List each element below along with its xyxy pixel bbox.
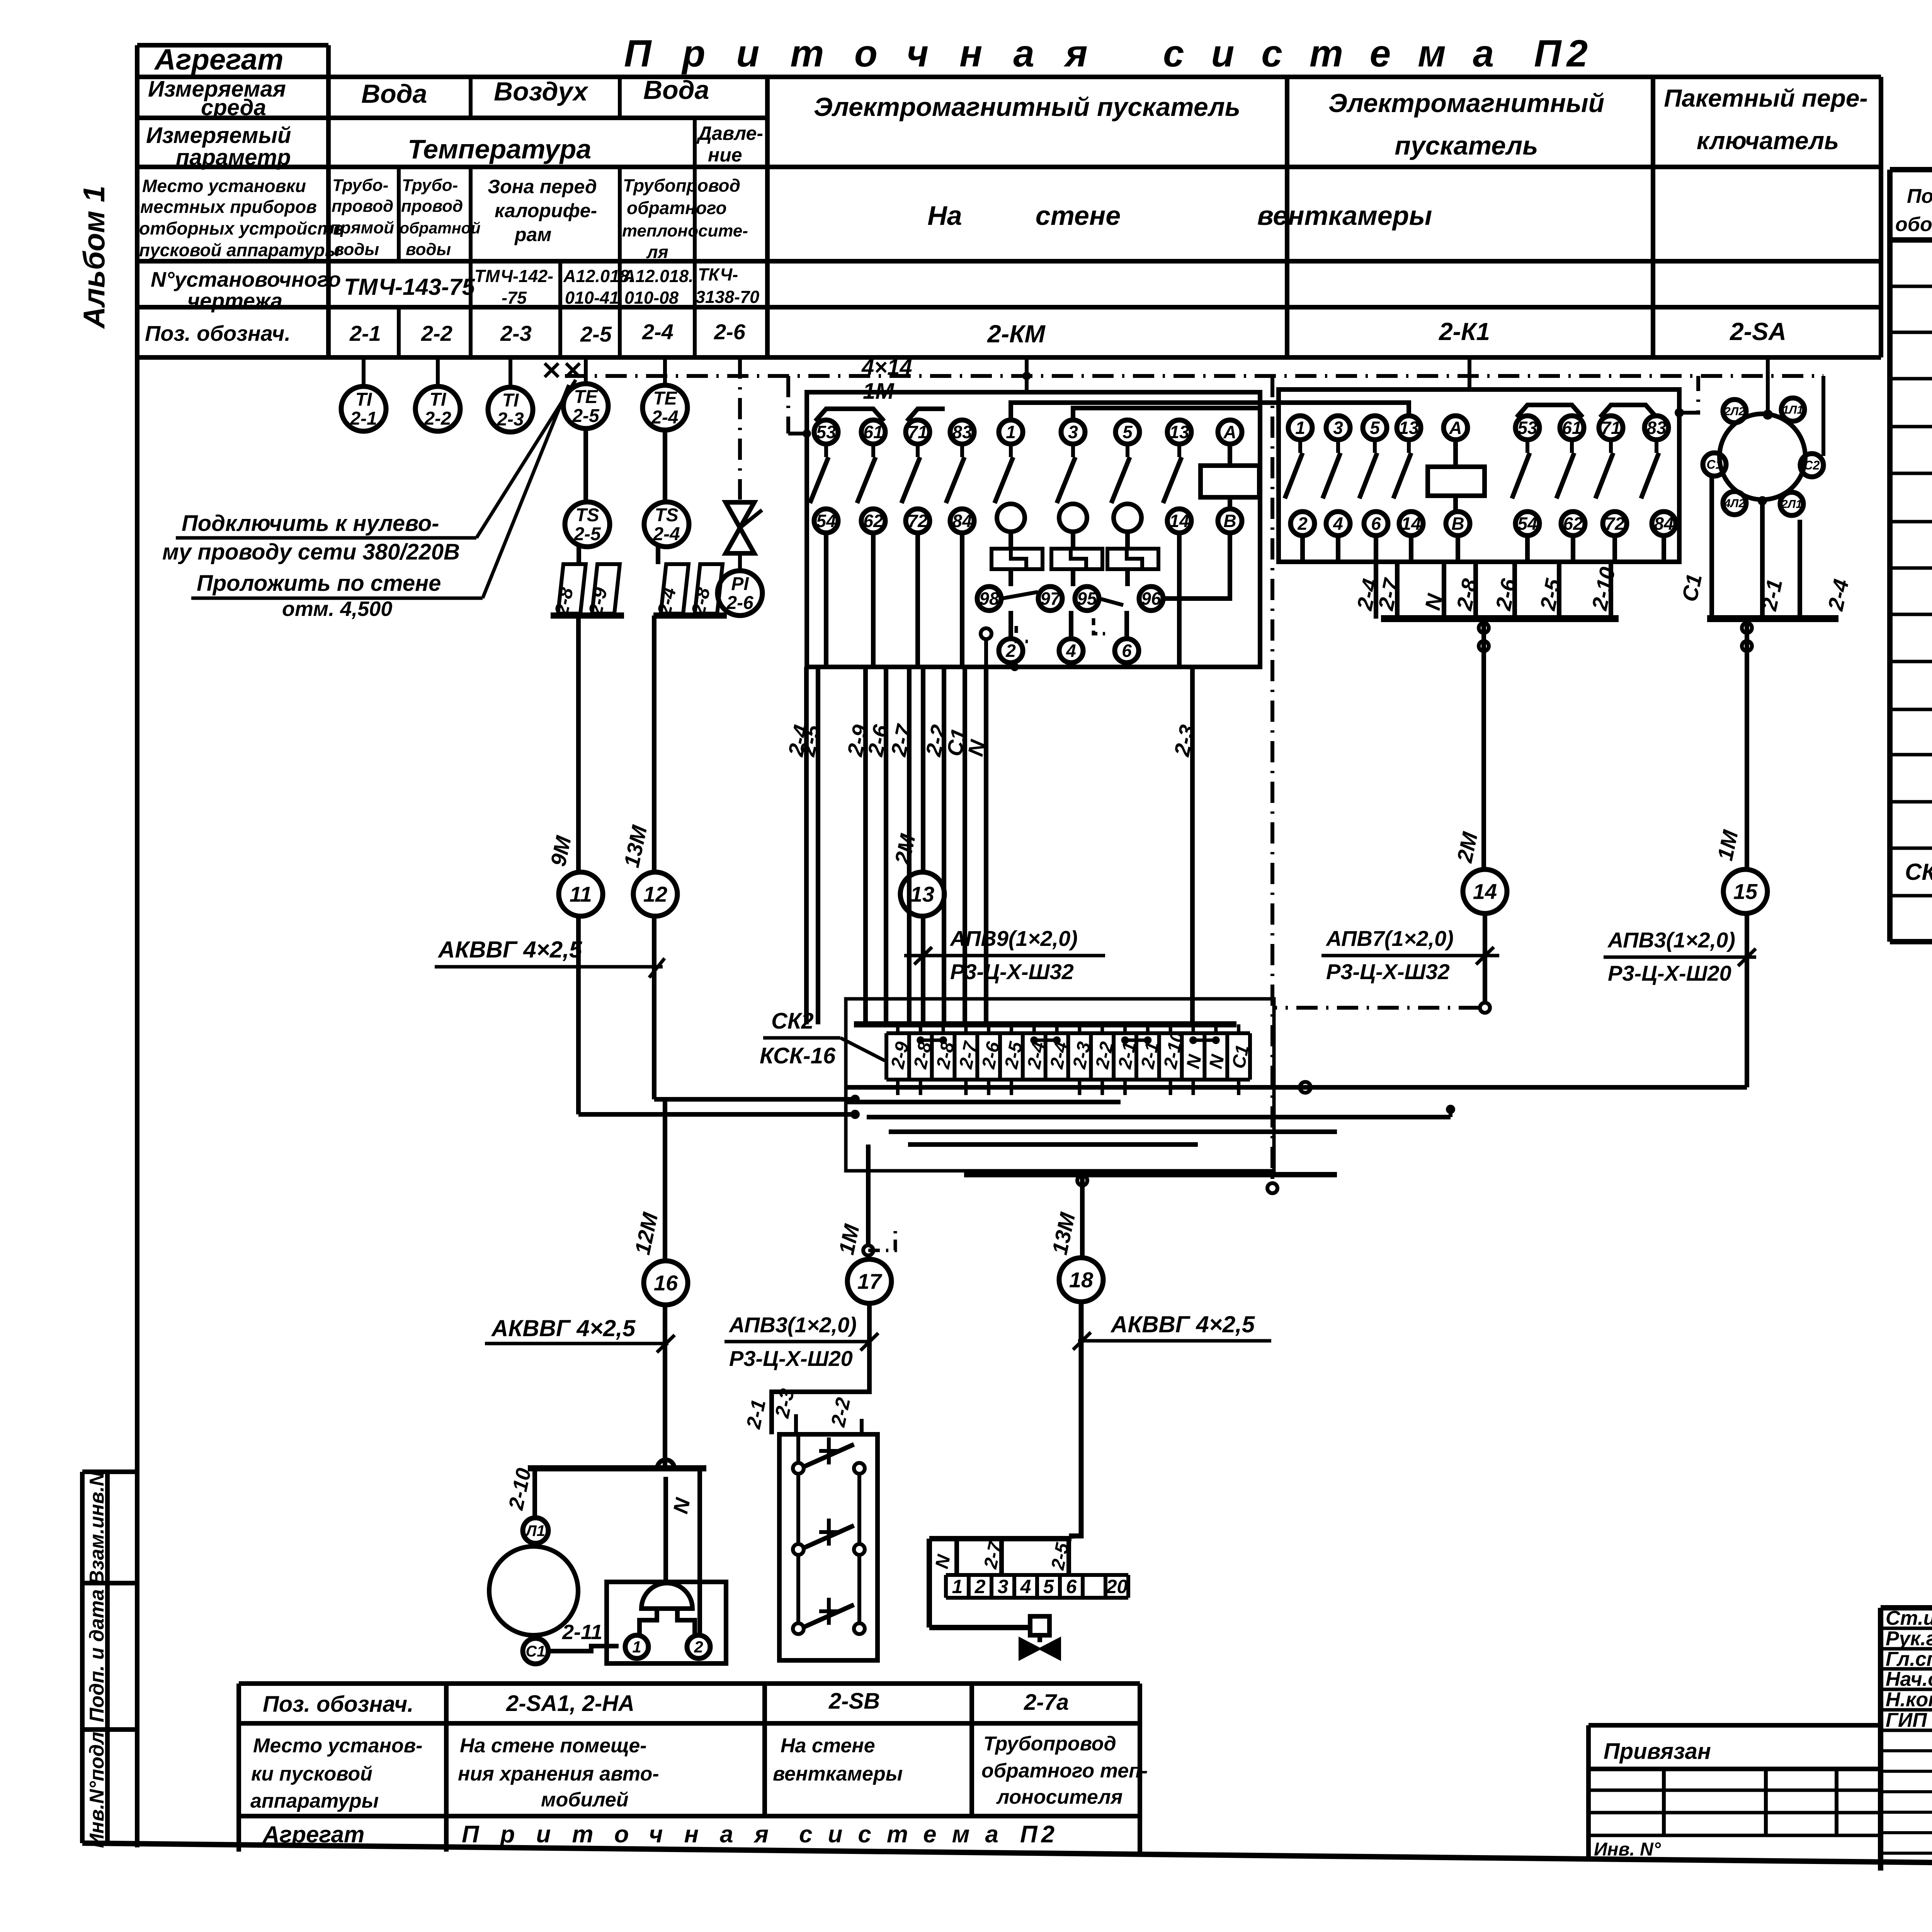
block1 terminal 72 bottom bbox=[906, 509, 930, 533]
package switch body bbox=[1719, 414, 1805, 500]
svg-text:АКВВГ 4×2,5: АКВВГ 4×2,5 bbox=[491, 1315, 636, 1341]
svg-text:венткамеры: венткамеры bbox=[1257, 201, 1432, 231]
svg-text:Поз. обознач.: Поз. обознач. bbox=[145, 321, 291, 345]
switch terminal 4Л2 bbox=[1723, 492, 1746, 515]
svg-text:Место установки: Место установки bbox=[142, 176, 306, 196]
wire 15 to junction box bbox=[1274, 1085, 1747, 1090]
svg-text:71: 71 bbox=[1601, 418, 1621, 438]
block2 terminal В bottom bbox=[1446, 512, 1470, 536]
svg-text:обратной: обратной bbox=[400, 219, 481, 237]
wire to cable 13 bbox=[921, 667, 925, 872]
svg-text:Трубо-: Трубо- bbox=[332, 176, 388, 195]
svg-text:2-1: 2-1 bbox=[349, 321, 381, 345]
ledge and boxes above strip bbox=[929, 1536, 1071, 1541]
svg-text:П2: П2 bbox=[1534, 32, 1593, 75]
svg-text:му проводу сети 380/220В: му проводу сети 380/220В bbox=[162, 539, 460, 565]
svg-text:95: 95 bbox=[1077, 588, 1097, 609]
svg-text:2-5: 2-5 bbox=[572, 406, 600, 426]
svg-text:2: 2 bbox=[975, 1576, 986, 1597]
svg-text:1: 1 bbox=[1006, 422, 1016, 442]
svg-text:лоносителя: лоносителя bbox=[996, 1786, 1122, 1808]
switch 2-SA1 body bbox=[489, 1546, 578, 1635]
svg-text:2-SA: 2-SA bbox=[1730, 318, 1786, 345]
block1 terminal 1 top bbox=[999, 420, 1023, 444]
bell dome bbox=[641, 1583, 692, 1609]
svg-text:АКВВГ 4×2,5: АКВВГ 4×2,5 bbox=[1110, 1311, 1255, 1337]
wire 2-9 from block1 bbox=[863, 667, 868, 1024]
svg-text:6: 6 bbox=[1122, 641, 1132, 661]
svg-text:ключатель: ключатель bbox=[1697, 127, 1839, 155]
title block outer bbox=[1881, 1605, 1932, 1611]
svg-text:2-6: 2-6 bbox=[714, 320, 746, 344]
svg-text:ки пусковой: ки пусковой bbox=[251, 1763, 372, 1785]
bell terminal 2 bbox=[687, 1635, 710, 1658]
svg-text:3: 3 bbox=[1333, 418, 1343, 438]
svg-text:Инв. N°: Инв. N° bbox=[1594, 1839, 1661, 1860]
svg-text:венткамеры: венткамеры bbox=[773, 1763, 903, 1785]
block1 terminal 84 bottom bbox=[950, 509, 974, 533]
cable marker 17 bbox=[847, 1259, 891, 1303]
svg-text:Электромагнитный: Электромагнитный bbox=[1328, 88, 1604, 118]
svg-text:Приточная: Приточная bbox=[624, 32, 1119, 75]
wire down to cable 15 bbox=[1745, 619, 1749, 869]
block2 switch blades bbox=[1298, 440, 1302, 453]
sensor TI 2-3 bbox=[509, 357, 512, 387]
svg-text:Взам.инв.N: Взам.инв.N bbox=[86, 1471, 108, 1585]
bottom bus bbox=[528, 1465, 706, 1471]
cable marker 11 bbox=[559, 872, 603, 916]
contactor box 2-KM bbox=[807, 392, 1260, 667]
svg-text:3: 3 bbox=[1068, 422, 1078, 442]
svg-text:Р3-Ц-Х-Ш32: Р3-Ц-Х-Ш32 bbox=[950, 959, 1074, 984]
wire table to block2 bbox=[1468, 357, 1471, 389]
wire 2-10 bbox=[532, 1468, 537, 1518]
switch terminal 2Л1 bbox=[1780, 492, 1803, 515]
svg-text:2-4: 2-4 bbox=[651, 407, 678, 428]
svg-text:П2: П2 bbox=[1020, 1821, 1058, 1848]
block2 terminal 72 bottom bbox=[1603, 512, 1627, 536]
cable marker 12 bbox=[633, 872, 677, 916]
svg-text:среда: среда bbox=[201, 95, 266, 120]
svg-text:Измеряемый: Измеряемый bbox=[146, 123, 291, 148]
junction dots below CK2 bbox=[850, 1095, 860, 1104]
svg-text:В: В bbox=[1223, 511, 1236, 531]
sheet bottom frame bbox=[82, 1843, 1932, 1871]
svg-text:2-К1: 2-К1 bbox=[1439, 318, 1490, 345]
svg-text:010-08: 010-08 bbox=[624, 288, 679, 308]
wire 2-6 from block1 bbox=[884, 667, 888, 1024]
block2 terminal 71 top bbox=[1599, 416, 1623, 440]
dash-dot supply bus bbox=[565, 374, 1823, 378]
svg-text:теплоносите-: теплоносите- bbox=[622, 221, 748, 240]
svg-text:ТМЧ-142-: ТМЧ-142- bbox=[474, 266, 553, 286]
svg-text:прямой: прямой bbox=[330, 218, 394, 237]
svg-text:4: 4 bbox=[1020, 1576, 1031, 1597]
svg-text:2-3: 2-3 bbox=[500, 321, 532, 345]
sensor TS 2-4 bbox=[644, 502, 689, 547]
svg-text:АПВ3(1×2,0): АПВ3(1×2,0) bbox=[1607, 928, 1735, 952]
block1 terminal 53 top bbox=[814, 420, 838, 444]
block2 terminal 6 bottom bbox=[1364, 512, 1388, 536]
svg-text:18: 18 bbox=[1069, 1268, 1094, 1292]
switch terminal С1 bbox=[1703, 453, 1726, 476]
svg-text:14: 14 bbox=[1473, 879, 1497, 904]
block1 relay coil bbox=[1228, 444, 1232, 466]
svg-text:воды: воды bbox=[334, 240, 379, 259]
wire 2-4 from block1 bbox=[804, 667, 809, 1024]
svg-text:2: 2 bbox=[1005, 641, 1016, 661]
dash-dot drop to CK2 bbox=[1270, 376, 1274, 1183]
svg-text:Проложить по стене: Проложить по стене bbox=[197, 571, 441, 596]
svg-text:Пакетный пере-: Пакетный пере- bbox=[1664, 84, 1867, 112]
svg-text:Поз. обознач.: Поз. обознач. bbox=[263, 1692, 413, 1717]
table top-left: grid bbox=[137, 43, 328, 48]
svg-text:61: 61 bbox=[1562, 418, 1582, 438]
sensor TS 2-5 bbox=[565, 502, 610, 547]
wire to cable 16 bbox=[663, 1099, 667, 1261]
wire 2-3 from block1 bbox=[1190, 667, 1195, 1024]
supply tap to block1 bbox=[786, 376, 790, 434]
svg-text:2-4: 2-4 bbox=[653, 524, 680, 544]
block2 terminal 2 bottom bbox=[1291, 512, 1315, 536]
valve 2-6 drop bbox=[738, 357, 742, 500]
block1 terminal А top bbox=[1218, 420, 1242, 444]
cable marker 13 bbox=[900, 872, 944, 916]
block2 terminal 14 bottom bbox=[1399, 512, 1423, 536]
wire 11 to junction box bbox=[578, 1112, 855, 1117]
parts table grid bbox=[1890, 167, 1932, 172]
svg-text:ТS: ТS bbox=[655, 505, 678, 526]
svg-text:Поз.: Поз. bbox=[1907, 185, 1932, 207]
svg-text:отборных устройств: отборных устройств bbox=[139, 218, 344, 238]
terminal С1 bbox=[523, 1638, 548, 1664]
wire 2-7 from block1 bbox=[907, 667, 912, 1024]
svg-text:2: 2 bbox=[1297, 514, 1308, 534]
CK2 top rail bbox=[854, 1021, 1236, 1027]
svg-text:010-41: 010-41 bbox=[565, 288, 619, 308]
svg-text:Давле-: Давле- bbox=[696, 122, 763, 144]
overload contacts 98 97 95 96 bbox=[977, 587, 1001, 611]
svg-text:2Л2: 2Л2 bbox=[1724, 405, 1745, 418]
svg-text:3: 3 bbox=[998, 1576, 1009, 1597]
switch terminal 2Л2 bbox=[1723, 400, 1746, 423]
svg-text:ТS: ТS bbox=[575, 505, 599, 526]
svg-text:ТЕ: ТЕ bbox=[574, 387, 598, 407]
svg-text:4Л2: 4Л2 bbox=[1724, 497, 1745, 510]
cable marker 18 bbox=[1059, 1258, 1103, 1302]
block2 terminal 4 bottom bbox=[1326, 512, 1350, 536]
svg-text:ТМЧ-143-75: ТМЧ-143-75 bbox=[344, 274, 476, 300]
svg-text:2-5: 2-5 bbox=[573, 524, 601, 544]
svg-text:6: 6 bbox=[1371, 514, 1381, 534]
svg-text:Альбом 1: Альбом 1 bbox=[77, 185, 111, 329]
wire 2-7 from block2 bbox=[1395, 562, 1400, 619]
wire from tags to cable 12 bbox=[652, 616, 656, 872]
tags 2-8 / 2-9 under TS2-5 bbox=[577, 547, 581, 564]
svg-text:система: система bbox=[799, 1821, 1014, 1848]
svg-text:1: 1 bbox=[632, 1638, 641, 1656]
block2 terminal 83 top bbox=[1645, 416, 1668, 440]
svg-text:1: 1 bbox=[1295, 418, 1305, 438]
svg-text:1: 1 bbox=[952, 1576, 963, 1597]
svg-text:Р3-Ц-Х-Ш20: Р3-Ц-Х-Ш20 bbox=[729, 1346, 853, 1371]
block1 terminal 13 top bbox=[1167, 420, 1191, 444]
svg-text:чертежа: чертежа bbox=[187, 289, 282, 313]
svg-text:АКВВГ 4×2,5: АКВВГ 4×2,5 bbox=[437, 937, 583, 963]
block1 terminal 14 bottom bbox=[1167, 509, 1191, 533]
svg-text:Р3-Ц-Х-Ш20: Р3-Ц-Х-Ш20 bbox=[1608, 961, 1731, 985]
wire 2-8 from block2 bbox=[1473, 562, 1478, 619]
svg-text:КСК-16: КСК-16 bbox=[760, 1043, 836, 1068]
svg-text:96: 96 bbox=[1141, 588, 1161, 609]
svg-text:На: На bbox=[927, 201, 962, 231]
wire from tags to cable 11 bbox=[576, 616, 581, 872]
svg-text:Р3-Ц-Х-Ш32: Р3-Ц-Х-Ш32 bbox=[1326, 959, 1450, 984]
wire С1 from block1 bbox=[963, 667, 967, 1024]
wire 2-10 from block2 bbox=[1609, 562, 1613, 619]
block1 terminal 3 top bbox=[1061, 420, 1085, 444]
svg-text:ТКЧ-: ТКЧ- bbox=[698, 265, 738, 284]
svg-text:С2: С2 bbox=[1804, 458, 1820, 472]
svg-text:84: 84 bbox=[952, 511, 972, 531]
svg-text:провод: провод bbox=[332, 197, 393, 216]
wire table to switch 2-SA bbox=[1766, 357, 1770, 415]
wire 2-11 bbox=[548, 1646, 619, 1651]
svg-text:параметр: параметр bbox=[176, 145, 291, 170]
svg-text:11: 11 bbox=[570, 882, 592, 906]
svg-text:83: 83 bbox=[1646, 418, 1667, 438]
svg-text:Ст.инж: Ст.инж bbox=[1886, 1607, 1932, 1629]
svg-text:СК2: СК2 bbox=[1905, 859, 1932, 885]
svg-text:62: 62 bbox=[1563, 514, 1583, 534]
svg-text:Трубо-: Трубо- bbox=[402, 176, 458, 195]
staff table bbox=[1881, 1627, 1932, 1630]
block1 top jumpers bbox=[815, 409, 884, 421]
svg-text:Подключить к нулево-: Подключить к нулево- bbox=[182, 511, 439, 536]
wire 2-5 from block1 bbox=[816, 667, 820, 1024]
block1 terminal 61 top bbox=[861, 420, 885, 444]
svg-text:рам: рам bbox=[514, 224, 551, 245]
svg-text:2-11: 2-11 bbox=[562, 1621, 602, 1644]
wire TE2-5 to TS2-5 bbox=[583, 429, 588, 502]
sheet left border bbox=[135, 45, 139, 1847]
svg-text:14: 14 bbox=[1169, 511, 1189, 531]
svg-text:2-SВ: 2-SВ bbox=[828, 1689, 880, 1714]
svg-text:пусковой аппаратуры: пусковой аппаратуры bbox=[139, 240, 340, 260]
block1 pole circles bbox=[997, 504, 1025, 532]
block2 bottom bus bbox=[1381, 615, 1619, 622]
svg-text:20: 20 bbox=[1106, 1576, 1128, 1597]
svg-text:обратного: обратного bbox=[627, 198, 727, 218]
wire N bbox=[697, 1468, 702, 1635]
svg-text:Рук.гр.: Рук.гр. bbox=[1886, 1628, 1932, 1650]
svg-text:2-5: 2-5 bbox=[580, 322, 612, 346]
block1 terminal 83 top bbox=[950, 420, 974, 444]
svg-text:А: А bbox=[1449, 418, 1462, 438]
svg-text:обратного теп-: обратного теп- bbox=[981, 1760, 1148, 1782]
contact pair 2 bbox=[793, 1544, 804, 1555]
wire 12 to junction box bbox=[654, 1097, 855, 1102]
bottom strip outline bbox=[946, 1573, 1128, 1577]
svg-text:ГИП: ГИП bbox=[1886, 1709, 1927, 1731]
svg-text:5: 5 bbox=[1043, 1576, 1054, 1597]
svg-text:15: 15 bbox=[1733, 879, 1758, 904]
svg-text:ние: ние bbox=[708, 144, 742, 166]
wire 2-5 from block2 bbox=[1557, 562, 1561, 619]
cable marker 16 bbox=[644, 1261, 688, 1305]
svg-text:-75: -75 bbox=[502, 288, 527, 308]
wire table to block1 bbox=[1025, 357, 1029, 392]
svg-text:✕✕: ✕✕ bbox=[541, 356, 584, 385]
block2 terminal 13 top bbox=[1397, 416, 1421, 440]
block2 terminal 54 bottom bbox=[1515, 512, 1539, 536]
svg-text:ТЕ: ТЕ bbox=[653, 388, 677, 409]
svg-text:1М: 1М bbox=[863, 379, 895, 404]
svg-text:отм. 4,500: отм. 4,500 bbox=[282, 597, 392, 621]
callout leader lines bbox=[476, 380, 576, 538]
wire to solenoid bbox=[929, 1625, 1030, 1630]
tags 2-4 / 2-8 under TS2-4 bbox=[656, 547, 660, 564]
svg-text:Л1: Л1 bbox=[525, 1522, 545, 1539]
svg-text:2-КМ: 2-КМ bbox=[987, 320, 1046, 348]
svg-text:N°установочного: N°установочного bbox=[151, 267, 341, 291]
block2 terminal 5 top bbox=[1363, 416, 1387, 440]
wire to cable 17 bbox=[866, 1145, 871, 1245]
block1 terminal 62 bottom bbox=[861, 509, 885, 533]
block2 top jumpers bbox=[1517, 405, 1583, 417]
neutral stub circle bbox=[981, 628, 992, 639]
wire N from block1 bbox=[984, 667, 988, 1024]
svg-text:4: 4 bbox=[1333, 514, 1343, 534]
svg-text:83: 83 bbox=[952, 422, 972, 442]
svg-text:6: 6 bbox=[1066, 1576, 1077, 1597]
svg-text:61: 61 bbox=[863, 422, 883, 442]
switch bottom wires bbox=[1709, 476, 1714, 619]
svg-text:53: 53 bbox=[816, 422, 836, 442]
svg-text:ТI: ТI bbox=[502, 390, 519, 411]
block1 switch blades bbox=[824, 444, 828, 457]
svg-text:71: 71 bbox=[908, 422, 927, 442]
block2 relay coil bbox=[1453, 440, 1458, 467]
svg-text:13: 13 bbox=[1399, 418, 1419, 438]
sensor TI 2-1 bbox=[362, 357, 366, 386]
svg-text:АПВ9(1×2,0): АПВ9(1×2,0) bbox=[949, 926, 1078, 951]
bell terminal 1 bbox=[625, 1635, 648, 1658]
contacts 2 4 6 bbox=[999, 639, 1023, 663]
svg-text:Трубопровод: Трубопровод bbox=[983, 1733, 1116, 1755]
wire from block2 bus down bbox=[1481, 619, 1486, 869]
wire 2-4 from block2 bbox=[1374, 562, 1378, 619]
contactor box 2-K1 bbox=[1279, 389, 1679, 562]
block2 terminal 3 top bbox=[1326, 416, 1350, 440]
svg-text:14: 14 bbox=[1401, 514, 1421, 534]
svg-text:53: 53 bbox=[1517, 418, 1537, 438]
svg-text:Агрегат: Агрегат bbox=[262, 1821, 364, 1847]
svg-text:система: система bbox=[1163, 32, 1521, 75]
block1 thermal elements bbox=[992, 549, 1043, 569]
contact pair 1 bbox=[793, 1463, 804, 1474]
svg-text:С1: С1 bbox=[526, 1643, 545, 1660]
bell box 2-НА bbox=[607, 1582, 726, 1663]
svg-text:13: 13 bbox=[910, 882, 934, 906]
wire 2-6 from block2 bbox=[1512, 562, 1517, 619]
svg-text:провод: провод bbox=[401, 197, 463, 216]
cable marker 14 bbox=[1463, 869, 1507, 913]
svg-text:2-7а: 2-7а bbox=[1024, 1690, 1069, 1715]
svg-text:В: В bbox=[1451, 514, 1464, 534]
switch terminal 1Л1 bbox=[1781, 398, 1804, 421]
bottom table grid bbox=[239, 1681, 1140, 1686]
svg-text:ля: ля bbox=[646, 242, 668, 262]
svg-text:17: 17 bbox=[857, 1269, 883, 1294]
block2 lower verticals bbox=[1300, 536, 1305, 562]
svg-text:2-1: 2-1 bbox=[350, 408, 377, 429]
svg-text:2-2: 2-2 bbox=[421, 321, 452, 345]
CK2 bottom bus bbox=[964, 1172, 1337, 1177]
svg-text:Подп. и дата: Подп. и дата bbox=[86, 1589, 108, 1722]
svg-text:54: 54 bbox=[1517, 514, 1537, 534]
cable marker 15 bbox=[1723, 869, 1767, 913]
svg-text:97: 97 bbox=[1040, 588, 1061, 609]
svg-text:РI: РI bbox=[731, 574, 749, 594]
block2 terminal А top bbox=[1444, 416, 1468, 440]
contact pair 3 bbox=[793, 1623, 804, 1634]
svg-text:72: 72 bbox=[908, 511, 928, 531]
switch bottom bus bbox=[1707, 615, 1838, 622]
CK2 lower wiring bbox=[846, 1085, 1274, 1090]
switch terminal С2 bbox=[1800, 454, 1823, 477]
svg-text:Агрегат: Агрегат bbox=[154, 43, 284, 76]
svg-text:обознач.: обознач. bbox=[1895, 213, 1932, 236]
svg-text:Воздух: Воздух bbox=[494, 77, 589, 106]
svg-text:5: 5 bbox=[1122, 422, 1133, 442]
valve symbol bbox=[726, 502, 754, 553]
svg-text:воды: воды bbox=[406, 240, 451, 259]
svg-text:А: А bbox=[1223, 422, 1236, 442]
svg-text:13: 13 bbox=[1169, 422, 1189, 442]
svg-text:пускатель: пускатель bbox=[1395, 131, 1538, 160]
svg-text:Привязан: Привязан bbox=[1604, 1739, 1711, 1764]
terminal Л1 bbox=[523, 1518, 548, 1543]
svg-text:5: 5 bbox=[1370, 418, 1380, 438]
privyazan box bbox=[1588, 1723, 1881, 1728]
svg-text:2-3: 2-3 bbox=[497, 409, 524, 430]
svg-text:Инв.N°подл.: Инв.N°подл. bbox=[86, 1726, 108, 1848]
block2 terminal 61 top bbox=[1560, 416, 1584, 440]
block1 aux verticals bbox=[824, 533, 828, 667]
svg-text:Зона перед: Зона перед bbox=[488, 176, 597, 197]
svg-text:2: 2 bbox=[694, 1638, 703, 1656]
svg-text:ТI: ТI bbox=[355, 389, 372, 410]
block2 terminal 53 top bbox=[1515, 416, 1539, 440]
wire 2-2 from block1 bbox=[942, 667, 946, 1024]
svg-text:Место установ-: Место установ- bbox=[253, 1735, 422, 1757]
block1 terminal 54 bottom bbox=[814, 509, 838, 533]
svg-text:местных приборов: местных приборов bbox=[140, 197, 317, 217]
svg-text:мобилей: мобилей bbox=[541, 1789, 629, 1811]
svg-text:62: 62 bbox=[863, 511, 883, 531]
svg-text:2-2: 2-2 bbox=[424, 408, 451, 429]
svg-text:2-6: 2-6 bbox=[726, 593, 753, 613]
svg-text:А12.018.: А12.018. bbox=[622, 266, 694, 286]
switch box 2-SB bbox=[779, 1434, 878, 1660]
junction box CK2 outline bbox=[846, 999, 1274, 1171]
svg-text:ния хранения авто-: ния хранения авто- bbox=[458, 1763, 659, 1785]
valve symbol bottom bbox=[1020, 1639, 1060, 1658]
block1 inside circles connect bbox=[1022, 372, 1031, 380]
svg-text:3138-70: 3138-70 bbox=[696, 287, 759, 307]
svg-text:16: 16 bbox=[654, 1271, 678, 1295]
